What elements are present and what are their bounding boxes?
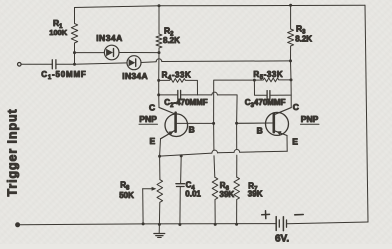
input terminal (top) — [18, 63, 22, 67]
resistor R5 33K — [253, 79, 256, 82]
bottom rail junction dots — [178, 223, 181, 226]
svg-text:Trigger Input: Trigger Input — [6, 108, 20, 196]
svg-text:IN34A: IN34A — [122, 71, 148, 81]
label - — [295, 214, 303, 216]
svg-text:C: C — [293, 102, 299, 112]
ground — [158, 223, 161, 226]
capacitor C3 470MMF — [254, 80, 266, 95]
capacitor C2 470MMF — [157, 93, 160, 96]
R8 wiper arm wire — [143, 188, 153, 190]
svg-text:C3470MMF: C3470MMF — [245, 98, 286, 109]
resistor R6 39K — [212, 177, 218, 224]
bottom rail (right of battery) — [287, 222, 369, 224]
svg-text:B: B — [257, 125, 263, 135]
wire: left base / R6 vertical — [213, 123, 215, 150]
svg-text:C: C — [149, 103, 155, 113]
svg-text:E: E — [150, 136, 156, 146]
svg-text:8.2K: 8.2K — [163, 36, 180, 45]
transistor Q2 (right, PNP) — [266, 112, 289, 135]
svg-text:6V.: 6V. — [275, 234, 289, 245]
wire: C2/R4 junction to right base, hop over cross wire — [198, 94, 212, 96]
wire: right base / R7 vertical — [236, 123, 238, 149]
capacitor C4 0.01 — [180, 154, 183, 157]
resistor R1 — [71, 8, 77, 65]
svg-text:PNP: PNP — [301, 114, 319, 124]
svg-text:0.01: 0.01 — [185, 189, 201, 198]
bottom rail (left of battery) — [19, 224, 276, 225]
output terminal (bottom) — [16, 223, 20, 227]
node B: right collector — [289, 59, 292, 62]
svg-text:100K: 100K — [49, 28, 68, 37]
transistor Q1 (left, PNP) — [165, 114, 188, 137]
node: trigger/R1 junction — [73, 51, 76, 54]
svg-text:39K: 39K — [248, 189, 263, 198]
diode D2 1N34A (lower) — [75, 63, 128, 64]
svg-text:8.2K: 8.2K — [295, 35, 312, 44]
svg-text:C1-50MMF: C1-50MMF — [41, 70, 86, 81]
potentiometer R8 50K — [158, 155, 161, 158]
svg-text:E: E — [292, 136, 298, 146]
resistor R3 — [288, 5, 294, 61]
svg-text:PNP: PNP — [139, 114, 157, 124]
top supply rail — [75, 5, 366, 7]
battery B1 6V — [275, 217, 277, 231]
label + — [262, 213, 270, 215]
svg-text:39K: 39K — [220, 190, 235, 199]
svg-text:IN34A: IN34A — [96, 33, 123, 43]
resistor R2 — [156, 6, 162, 53]
wire: trigger node vertical — [74, 53, 76, 65]
resistor R4 33K — [157, 79, 160, 82]
capacitor C1 — [21, 63, 52, 65]
node A: left collector — [158, 51, 161, 54]
wire: left base to R5/C3 (cross coupling) — [214, 80, 255, 123]
wire: node B down to collector — [290, 61, 293, 108]
resistor R7 39K — [234, 177, 240, 224]
wire: D2 to right collector node, hop over R2 wire — [141, 61, 156, 64]
right side wire — [365, 5, 368, 222]
svg-text:C2-470MMF: C2-470MMF — [164, 98, 207, 109]
svg-text:50K: 50K — [119, 191, 134, 200]
emitter rail with hops — [160, 153, 212, 156]
wire: node A down to collector — [158, 53, 160, 108]
diode D1 1N34A (upper) — [75, 52, 105, 54]
svg-text:B: B — [189, 124, 195, 134]
